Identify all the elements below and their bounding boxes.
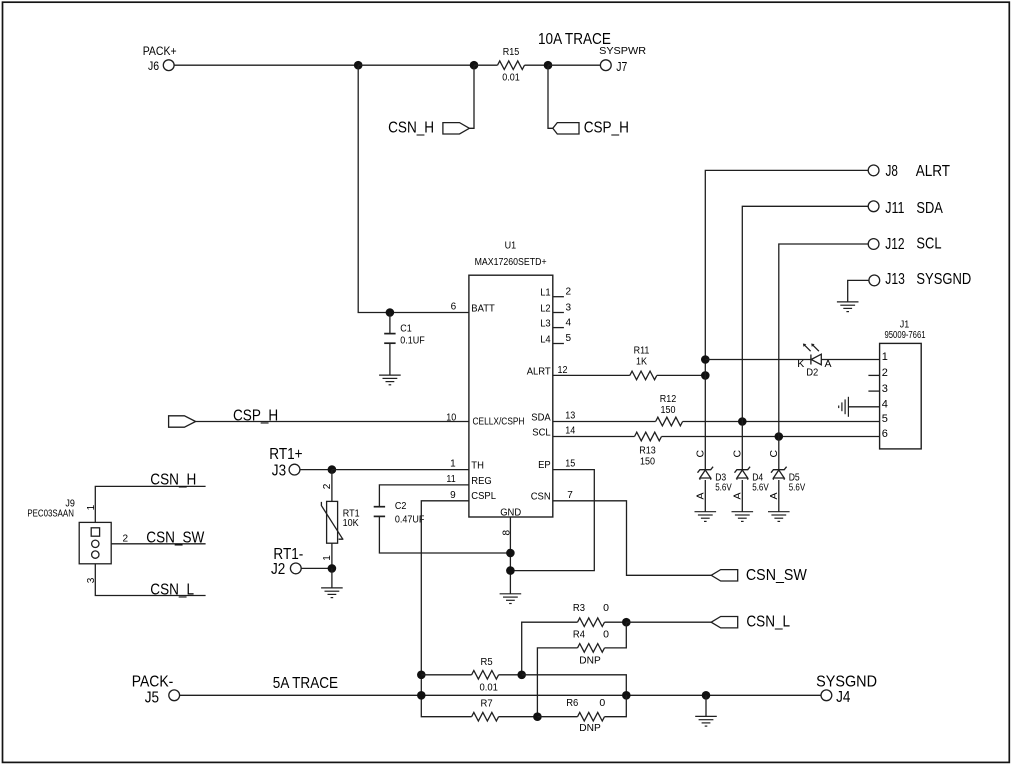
svg-text:CSN_H: CSN_H [150, 471, 196, 488]
resistor R4 [578, 644, 605, 653]
junction R5/R6 to rail [622, 691, 631, 700]
junction RT1 bottom [328, 564, 337, 573]
wire EP pin15 to GND node [510, 470, 594, 571]
svg-text:RT1+: RT1+ [269, 446, 302, 463]
wire BATT feed (J6 column down to U1 BATT) [358, 65, 469, 312]
wire RT1 node to TH pin 1 [332, 469, 469, 471]
connector J13 (SYSGND) [869, 275, 880, 286]
junction node CSP_H [544, 61, 553, 70]
junction CSN_L [622, 618, 631, 627]
connector J1 body (95009-7661) [880, 343, 922, 449]
svg-text:L3: L3 [540, 318, 551, 330]
net tag CSP_H (left) [169, 416, 196, 427]
wire CSN pin7 to CSN_SW tag [553, 501, 711, 576]
ground (J1 pin 4, rotated) [839, 397, 849, 417]
svg-text:6: 6 [451, 302, 457, 313]
connector J5 (PACK- terminal) [169, 690, 180, 701]
svg-text:R15: R15 [503, 47, 520, 58]
svg-text:C: C [731, 450, 743, 458]
svg-text:95009-7661: 95009-7661 [885, 330, 926, 341]
wire SCL pin14 to R13 [553, 436, 635, 438]
resistor R13 [635, 432, 662, 441]
junction D2 row [701, 355, 710, 364]
ground (C1) [379, 375, 401, 385]
svg-text:2: 2 [882, 367, 888, 379]
pin stub L1 (pin 2) [553, 296, 564, 298]
junction ALRT column [701, 371, 710, 380]
resistor R3 [578, 618, 605, 627]
resistor R5 [472, 671, 499, 680]
pin stub L4 (pin 5) [553, 343, 564, 345]
junction node CSN_H [470, 61, 479, 70]
svg-text:SDA: SDA [531, 411, 550, 423]
wire to bottom ground [705, 695, 707, 716]
svg-text:EP: EP [538, 459, 551, 471]
svg-text:TH: TH [471, 460, 484, 472]
svg-text:3: 3 [566, 302, 572, 313]
svg-text:150: 150 [640, 456, 655, 467]
svg-text:J7: J7 [616, 59, 627, 74]
wire to R15 [474, 64, 498, 66]
svg-text:2: 2 [123, 533, 129, 544]
svg-text:0.47UF: 0.47UF [395, 515, 425, 526]
svg-text:CSP_H: CSP_H [584, 119, 629, 136]
wire C2 to GND node [379, 517, 510, 553]
wire R13 to J1 pin 6 [662, 436, 880, 438]
pin stub J1 pin 2 [868, 374, 879, 376]
wire CSP_H tag to U1 pin 10 [196, 421, 469, 423]
junction SCL column [775, 432, 784, 441]
svg-text:5.6V: 5.6V [789, 482, 806, 494]
wire SDA pin13 to R12 [553, 421, 656, 423]
svg-text:5.6V: 5.6V [715, 482, 732, 494]
svg-text:4: 4 [882, 399, 888, 411]
wire GND pin 8 down [509, 517, 511, 594]
wire J2 to RT1 node [301, 567, 332, 569]
pin stub L3 (pin 4) [553, 327, 564, 329]
zener diode D3 [698, 467, 714, 480]
wire R4 up to CSN_L node [605, 622, 627, 648]
wire J1 pin 4 to ground [848, 406, 879, 408]
svg-text:R6: R6 [566, 697, 578, 709]
svg-text:10K: 10K [343, 518, 359, 529]
svg-text:CSN: CSN [531, 491, 551, 503]
svg-text:CELLX/CSPH: CELLX/CSPH [473, 416, 525, 428]
resistor R12 [656, 417, 683, 426]
svg-text:PACK+: PACK+ [143, 44, 177, 58]
svg-text:R12: R12 [660, 394, 677, 405]
svg-text:CSN_SW: CSN_SW [746, 567, 807, 584]
wire to J7 [548, 64, 601, 66]
svg-text:J8: J8 [886, 163, 898, 180]
svg-text:R4: R4 [573, 629, 585, 641]
svg-text:SDA: SDA [916, 200, 943, 217]
svg-text:CSN_SW: CSN_SW [146, 530, 204, 547]
svg-text:1K: 1K [636, 356, 647, 367]
ground (RT1) [321, 588, 343, 598]
wire R3 branch [522, 622, 578, 675]
wire J8 to ALRT/D3 column [705, 170, 868, 469]
svg-text:0: 0 [599, 697, 605, 709]
svg-text:GND: GND [500, 506, 521, 518]
ground (J13) [837, 302, 859, 312]
capacitor C2 [374, 507, 385, 517]
J9 pin 3 round pad [92, 551, 99, 558]
svg-text:DNP: DNP [579, 655, 601, 667]
svg-text:CSPL: CSPL [471, 490, 496, 502]
junction SDA column [738, 417, 747, 426]
net tag CSN_L (right) [711, 617, 738, 628]
op-amp U1 body (MAX17260SETD+ fuel gauge IC) [469, 275, 553, 517]
wire C1 to ground [389, 344, 391, 375]
svg-text:C2: C2 [395, 501, 407, 512]
ground (U1 GND) [500, 594, 522, 604]
wire R3 to CSN_L node [605, 621, 627, 623]
svg-text:1: 1 [86, 504, 97, 510]
svg-text:4: 4 [566, 317, 572, 328]
svg-text:ALRT: ALRT [527, 365, 552, 377]
svg-text:J6: J6 [148, 59, 159, 73]
ground (D4) [732, 512, 754, 522]
connector J4 (SYSGND terminal) [821, 690, 832, 701]
wire D3 to ground [704, 480, 706, 512]
wire D4 to ground [741, 480, 743, 512]
svg-text:5A TRACE: 5A TRACE [273, 675, 338, 692]
wire ALRT pin12 to R11 [553, 374, 630, 376]
pin stub L2 (pin 3) [553, 312, 564, 314]
svg-text:J13: J13 [885, 271, 905, 288]
wire CSP_H tag drop [548, 65, 553, 128]
wire RT1 bottom lead [331, 543, 333, 568]
svg-text:9: 9 [450, 490, 456, 501]
svg-text:REG: REG [471, 475, 492, 487]
svg-text:U1: U1 [505, 240, 517, 251]
svg-text:1: 1 [882, 351, 888, 363]
wire D5 to ground [778, 480, 780, 512]
svg-text:2: 2 [566, 286, 572, 297]
pin stub J1 pin 3 [868, 390, 879, 392]
svg-text:14: 14 [565, 426, 575, 437]
svg-text:1: 1 [322, 555, 333, 561]
svg-text:L2: L2 [540, 303, 551, 315]
svg-text:7: 7 [567, 490, 573, 501]
svg-text:R11: R11 [634, 345, 650, 356]
svg-text:SCL: SCL [532, 426, 551, 438]
junction GND/C2 [506, 549, 515, 558]
resistor R7 [472, 712, 499, 721]
wire REG pin11 to C2 [379, 485, 469, 507]
svg-text:0.01: 0.01 [480, 681, 499, 693]
connector J3 (RT1+ terminal) [289, 464, 300, 475]
svg-text:CSN_L: CSN_L [746, 613, 790, 630]
svg-text:A: A [768, 492, 780, 499]
ground (SYSGND) [695, 716, 717, 726]
ground (D3) [695, 512, 717, 522]
wire rail CSN_SW [99, 543, 206, 545]
wire D2 anode to J1 pin 1 [821, 359, 879, 361]
svg-text:R5: R5 [481, 656, 493, 668]
zener diode D5 [771, 467, 787, 480]
thermistor RT1 diagonal stroke [321, 502, 343, 539]
svg-text:J4: J4 [836, 689, 851, 706]
svg-text:5: 5 [566, 333, 572, 344]
connector J12 (SCL) [868, 239, 879, 250]
wire R11 to ALRT column [657, 374, 706, 376]
svg-text:11: 11 [446, 474, 456, 485]
wire rail CSN_H [95, 486, 205, 522]
svg-text:D2: D2 [806, 366, 818, 378]
net tag CSN_SW (right) [711, 570, 738, 581]
svg-text:0.1UF: 0.1UF [400, 336, 425, 347]
svg-text:ALRT: ALRT [916, 163, 951, 180]
wire J6 to junction [174, 64, 358, 66]
svg-text:J3: J3 [272, 462, 286, 479]
connector J8 (ALRT) [868, 165, 879, 176]
connector J2 (RT1- terminal) [290, 563, 301, 574]
svg-text:J12: J12 [885, 236, 904, 253]
connector J6 (PACK+ terminal) [163, 60, 174, 71]
svg-text:L1: L1 [540, 287, 551, 299]
svg-text:BATT: BATT [471, 302, 495, 314]
svg-text:R13: R13 [639, 446, 656, 457]
wire J12 to SCL/D5 column [779, 244, 869, 469]
svg-text:SYSPWR: SYSPWR [599, 45, 646, 57]
wire R5 to junction [499, 674, 522, 676]
svg-text:R7: R7 [481, 698, 493, 710]
connector J11 (SDA) [868, 201, 879, 212]
svg-text:DNP: DNP [579, 722, 601, 734]
LED D2 [803, 344, 821, 365]
svg-text:SCL: SCL [916, 236, 941, 253]
junction node BATT column [354, 61, 363, 70]
svg-text:J5: J5 [145, 690, 159, 707]
wire CSPL pin9 down to R7 row [421, 501, 471, 717]
junction R5/R3 [517, 671, 526, 680]
svg-text:0: 0 [603, 602, 609, 614]
net tag CSP_H (top) [553, 123, 579, 134]
svg-text:R3: R3 [573, 602, 585, 614]
svg-text:SYSGND: SYSGND [916, 271, 971, 288]
wire R4 branch [537, 648, 577, 717]
wire R7 to R4 node [499, 716, 538, 718]
wire junction to CSN_H node [358, 64, 474, 66]
svg-text:CSN_L: CSN_L [150, 581, 194, 598]
svg-text:150: 150 [661, 405, 676, 416]
junction GND/EP [506, 566, 515, 575]
svg-text:C: C [694, 450, 706, 458]
svg-text:15: 15 [565, 458, 575, 469]
svg-text:A: A [731, 492, 743, 499]
svg-text:PEC03SAAN: PEC03SAAN [27, 509, 74, 520]
wire RT1 top lead [331, 470, 333, 502]
wire rail CSN_L [95, 558, 205, 595]
svg-text:0: 0 [603, 629, 609, 641]
wire to R6 [537, 716, 577, 718]
svg-text:C1: C1 [400, 324, 412, 335]
wire R5 row to PACK- rail [522, 675, 627, 696]
J9 pin 1 square pad [91, 528, 99, 536]
wire ALRT column to D2 cathode [705, 359, 811, 361]
connector J9 body (PEC03SAAN) [79, 522, 111, 563]
junction R5 left [417, 671, 426, 680]
svg-text:3: 3 [86, 577, 97, 583]
resistor R15 [498, 61, 525, 70]
zener diode D4 [735, 467, 751, 480]
svg-text:3: 3 [882, 383, 888, 395]
svg-text:SYSGND: SYSGND [816, 673, 877, 690]
svg-text:5.6V: 5.6V [752, 482, 769, 494]
svg-text:J1: J1 [900, 319, 910, 330]
thermistor RT1 body [327, 501, 338, 543]
wire J11 to SDA/D4 column [742, 206, 868, 469]
junction RT1 top [328, 465, 337, 474]
junction CSPL/PACK- [417, 691, 426, 700]
svg-text:J2: J2 [271, 561, 285, 578]
resistor R11 [630, 371, 657, 380]
wire PACK- rail to J4 [179, 694, 821, 696]
svg-text:J11: J11 [885, 200, 904, 217]
svg-text:CSN_H: CSN_H [388, 119, 434, 136]
resistor R6 [578, 712, 605, 721]
wire CSN_H tag drop [469, 65, 474, 128]
svg-text:13: 13 [565, 411, 575, 422]
svg-text:K: K [797, 358, 804, 370]
net tag CSN_H (top) [443, 123, 470, 134]
wire J3 to RT1 node [300, 469, 332, 471]
svg-text:MAX17260SETD+: MAX17260SETD+ [475, 256, 547, 268]
J9 pin 2 round pad [92, 540, 99, 547]
capacitor C1 [384, 334, 395, 344]
svg-text:0.01: 0.01 [502, 73, 520, 84]
svg-text:5: 5 [882, 413, 888, 425]
svg-text:C: C [768, 450, 780, 458]
wire RT1 node to ground [331, 568, 333, 588]
wire J13 to ground [848, 280, 869, 302]
svg-text:1: 1 [450, 459, 456, 470]
junction SYSGND [702, 691, 711, 700]
wire to C1 top plate [389, 313, 391, 334]
wire R15 to CSP_H node [525, 64, 549, 66]
junction R7/R4 [533, 712, 542, 721]
svg-text:12: 12 [558, 365, 568, 376]
svg-text:A: A [694, 492, 706, 499]
wire CSN_L node to tag [626, 621, 711, 623]
svg-text:6: 6 [882, 428, 888, 440]
connector J7 (SYSPWR terminal) [600, 60, 611, 71]
junction C1 tap [386, 308, 395, 317]
wire to R5 [421, 674, 471, 676]
wire R6 up to PACK- rail [605, 695, 627, 716]
svg-text:L4: L4 [540, 333, 551, 345]
svg-text:PACK-: PACK- [132, 674, 174, 691]
wire R12 to J1 pin 5 [683, 421, 880, 423]
ground (D5) [768, 512, 790, 522]
